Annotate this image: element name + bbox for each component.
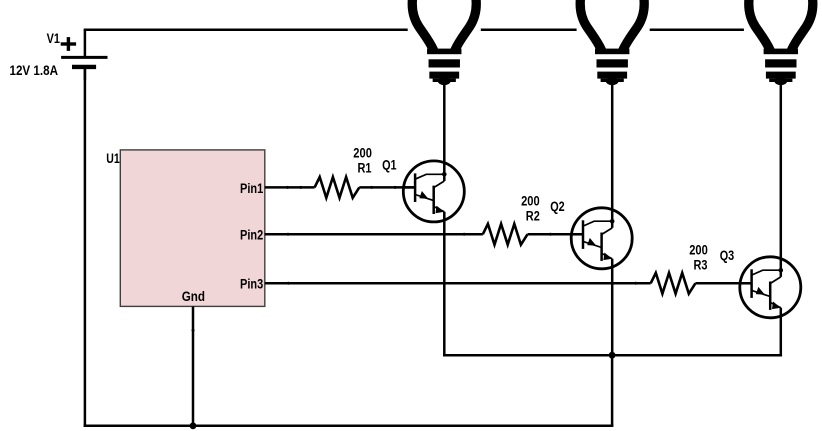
- svg-text:R3: R3: [694, 257, 708, 272]
- lamp 2: [580, 0, 644, 85]
- joint dot R2-Q2 wire: [549, 233, 552, 236]
- wire ground bottom rail: [84, 425, 614, 428]
- svg-text:V1: V1: [47, 31, 61, 46]
- svg-text:Q3: Q3: [720, 248, 735, 263]
- wire lamp3 to Q3 collector: [780, 83, 783, 277]
- wire lamp1 to Q1 collector: [443, 83, 446, 181]
- lamp 1: [412, 0, 476, 85]
- wire Pin1 to R1: [265, 186, 315, 189]
- svg-text:12V 1.8A: 12V 1.8A: [10, 63, 59, 78]
- IC U1 box: [120, 150, 264, 307]
- svg-text:Q2: Q2: [550, 199, 565, 214]
- wire emitter rail: [443, 354, 782, 357]
- svg-text:R2: R2: [526, 209, 540, 224]
- wire R3 to Q3 base: [695, 282, 751, 285]
- svg-text:Pin2: Pin2: [240, 228, 263, 243]
- junction emitter rail to ground drop: [609, 352, 616, 359]
- lamp 3: [749, 0, 813, 85]
- transistor Q3: [740, 257, 801, 318]
- svg-text:U1: U1: [106, 151, 120, 166]
- wire Q3 emitter down: [780, 308, 783, 357]
- wire R2 to Q2 base: [528, 233, 584, 236]
- wire lamp1 to lamp2: [481, 28, 577, 31]
- wire Pin2 to R2: [265, 233, 483, 236]
- wire Q1 emitter down: [443, 212, 446, 357]
- wire lamp2 to lamp3: [650, 28, 744, 31]
- svg-text:Q1: Q1: [382, 158, 397, 173]
- joint dots Pin3 wire: [287, 282, 290, 285]
- wire Pin3 to R3: [265, 282, 651, 285]
- wire Q2 emitter down: [611, 259, 614, 357]
- wire ground drop: [611, 355, 614, 427]
- joint dots R1-Q1 wire: [370, 186, 373, 189]
- joint dots Pin2 wire: [287, 233, 290, 236]
- svg-text:R1: R1: [358, 160, 372, 175]
- transistor Q1: [403, 161, 464, 222]
- wire lamp2 to Q2 collector: [611, 83, 614, 228]
- battery plus sign: [61, 37, 76, 51]
- battery V1: [61, 30, 107, 80]
- svg-text:200: 200: [353, 146, 372, 161]
- svg-text:200: 200: [521, 193, 540, 208]
- joint dot Gnd stub: [192, 329, 195, 332]
- wire battery negative / left rail down: [84, 68, 87, 427]
- junction Gnd rail: [190, 422, 197, 429]
- resistor R3: [651, 273, 696, 294]
- resistor R1: [315, 177, 360, 198]
- svg-text:Gnd: Gnd: [182, 289, 205, 304]
- svg-text:200: 200: [689, 242, 708, 257]
- svg-text:Pin1: Pin1: [240, 181, 264, 196]
- transistor Q2: [571, 208, 632, 269]
- wire R1 to Q1 base: [359, 186, 415, 189]
- wire top rail battery to lamp1: [84, 28, 408, 31]
- wire Gnd stub from U1: [192, 306, 195, 427]
- joint dots Pin1 wire: [286, 186, 289, 189]
- svg-text:Pin3: Pin3: [240, 277, 264, 292]
- resistor R2: [483, 224, 528, 245]
